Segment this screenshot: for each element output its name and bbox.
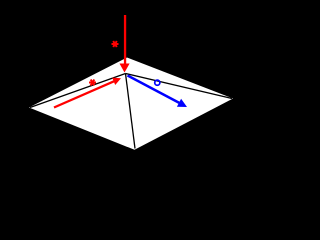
red asterisk label 2 [89, 80, 96, 86]
red diagonal arrow head [112, 78, 121, 85]
red asterisk label 1 [112, 41, 119, 47]
axis line V to left corner P1 [30, 74, 126, 108]
red vertical arrow shaft [124, 15, 126, 64]
red vertical arrow head [120, 64, 130, 73]
axis line V down to bottom corner P4 [126, 74, 136, 149]
blue circle label O [155, 80, 160, 85]
white plane (parallelogram panel) [29, 58, 233, 150]
blue arrow head [177, 99, 187, 107]
axis line V to right corner P3 [126, 74, 233, 99]
blue arrow shaft [128, 76, 180, 104]
red diagonal arrow shaft [54, 81, 115, 108]
